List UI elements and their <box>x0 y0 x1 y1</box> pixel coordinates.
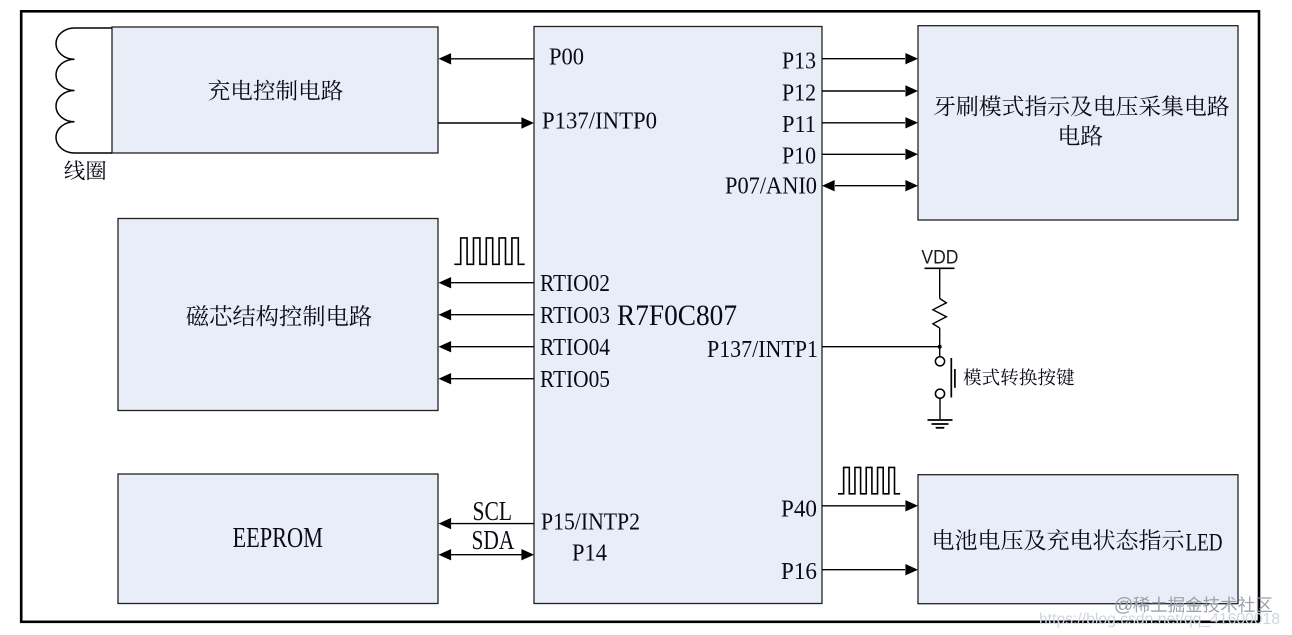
svg-text:P11: P11 <box>782 112 816 138</box>
wire RTIO03 with arrow <box>439 309 535 320</box>
label 充电控制电路 <box>209 80 343 101</box>
pin label P13 <box>782 48 816 74</box>
pin label P16 <box>781 559 817 585</box>
wire P00 to charging block with arrow <box>439 53 535 64</box>
block: core structure control circuit 磁芯结构控制电路 <box>118 219 438 411</box>
pin label P15/INTP2 <box>541 509 640 535</box>
block: charging control circuit 充电控制电路 <box>112 27 438 153</box>
square wave symbol lower <box>838 467 900 493</box>
wire switch to ground <box>939 398 941 419</box>
label R7F0C807 <box>617 299 737 332</box>
ground symbol <box>928 420 953 428</box>
wire P11 with arrow <box>822 117 918 128</box>
label EEPROM <box>233 522 324 554</box>
junction node dot <box>938 345 942 349</box>
svg-text:P16: P16 <box>781 559 817 585</box>
label 电路 line2 <box>1060 125 1102 146</box>
pin label RTIO02 <box>540 271 610 297</box>
switch SW1 actuator bar long <box>950 358 952 398</box>
wire charging block to P137/INTP0 with arrow <box>438 117 534 128</box>
svg-text:RTIO03: RTIO03 <box>540 303 610 329</box>
square wave symbol upper <box>454 238 524 264</box>
pin label P137/INTP0 <box>542 109 657 135</box>
wire P137/INTP1 to resistor junction <box>822 346 940 348</box>
watermark url <box>1039 611 1280 628</box>
svg-text:R7F0C807: R7F0C807 <box>617 299 737 332</box>
label 模式转换按键 mode switch button <box>964 368 1075 385</box>
wire P12 with arrow <box>822 85 918 96</box>
switch SW1 lower contact circle <box>935 389 944 398</box>
wire P13 with arrow <box>822 53 918 64</box>
wire resistor to switch <box>939 328 941 357</box>
inductor coil 线圈 symbol <box>56 28 112 153</box>
resistor R1 zigzag <box>933 299 947 329</box>
svg-text:SDA: SDA <box>472 525 515 555</box>
block: EEPROM <box>118 474 438 604</box>
block: MCU U1 R7F0C807 <box>534 27 822 604</box>
svg-text:P13: P13 <box>782 48 816 74</box>
svg-text:EEPROM: EEPROM <box>233 522 324 554</box>
svg-text:P00: P00 <box>549 44 584 70</box>
svg-text:P14: P14 <box>572 540 607 566</box>
wire RTIO04 with arrow <box>439 341 535 352</box>
svg-text:P40: P40 <box>781 497 817 523</box>
svg-text:SCL: SCL <box>473 496 513 526</box>
wire SDA double arrow <box>439 549 535 560</box>
label 线圈 <box>64 160 105 180</box>
svg-text:https://blog.csdn.net/qq_41600: https://blog.csdn.net/qq_41600018 <box>1039 611 1280 628</box>
svg-text:P10: P10 <box>782 143 816 169</box>
label 电池电压及充电状态指示 <box>934 529 1183 550</box>
wire RTIO02 with arrow <box>439 277 535 288</box>
switch SW1 actuator bar short <box>954 369 956 388</box>
net label SCL <box>473 496 513 526</box>
label 牙刷模式指示及电压采集电路 line1 <box>934 95 1229 116</box>
svg-text:RTIO02: RTIO02 <box>540 271 610 297</box>
svg-text:LED: LED <box>1186 530 1223 557</box>
pin label P12 <box>782 80 816 106</box>
watermark @稀土掘金技术社区 <box>1114 594 1272 616</box>
svg-text:RTIO05: RTIO05 <box>540 367 610 393</box>
pin label P00 <box>549 44 584 70</box>
pin label P14 <box>572 540 607 566</box>
pin label P10 <box>782 143 816 169</box>
svg-text:P12: P12 <box>782 80 816 106</box>
svg-text:RTIO04: RTIO04 <box>540 335 610 361</box>
pin label RTIO04 <box>540 335 610 361</box>
switch SW1 upper contact circle <box>935 357 944 366</box>
wire P07/ANI0 double arrow <box>822 180 918 191</box>
VDD power bar <box>925 267 955 269</box>
wire VDD bar to resistor <box>939 268 941 298</box>
label 磁芯结构控制电路 <box>186 305 371 326</box>
pin label P07/ANI0 <box>725 174 817 200</box>
pin label RTIO05 <box>540 367 610 393</box>
wire SCL with arrow <box>439 518 535 529</box>
wire P40 with arrow <box>822 500 918 511</box>
block: toothbrush mode indication and voltage sampling circuit 牙刷模式指示及电压采集电路 <box>918 26 1238 220</box>
wire P16 with arrow <box>822 564 918 575</box>
power label VDD <box>921 247 958 269</box>
pin label P11 <box>782 112 816 138</box>
svg-text:P07/ANI0: P07/ANI0 <box>725 174 817 200</box>
svg-text:P137/INTP0: P137/INTP0 <box>542 109 657 135</box>
svg-text:P15/INTP2: P15/INTP2 <box>541 509 640 535</box>
svg-text:VDD: VDD <box>921 247 958 269</box>
svg-text:P137/INTP1: P137/INTP1 <box>707 337 818 363</box>
block: battery voltage and charge status LED 电池电压及充电状态指示LED <box>918 475 1238 604</box>
wire RTIO05 with arrow <box>439 373 535 384</box>
pin label P137/INTP1 <box>707 337 818 363</box>
pin label P40 <box>781 497 817 523</box>
label LED <box>1186 530 1223 557</box>
wire P10 with arrow <box>822 149 918 160</box>
net label SDA <box>472 525 515 555</box>
pin label RTIO03 <box>540 303 610 329</box>
